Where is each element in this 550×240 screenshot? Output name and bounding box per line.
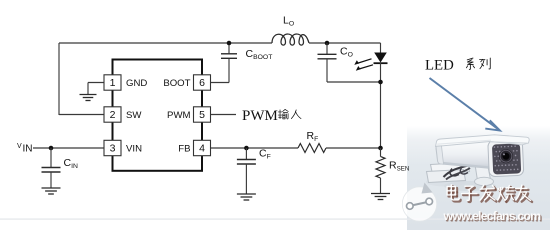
svg-text:3: 3 [110, 143, 116, 155]
svg-text:IN: IN [23, 144, 33, 155]
svg-text:BOOT: BOOT [163, 78, 190, 89]
svg-text:www.elecfans.com: www.elecfans.com [443, 209, 542, 223]
svg-text:PWM: PWM [167, 110, 190, 121]
svg-text:V: V [17, 143, 22, 150]
svg-text:FB: FB [178, 144, 190, 155]
svg-text:2: 2 [110, 109, 116, 121]
svg-text:LED: LED [425, 58, 454, 74]
svg-text:1: 1 [110, 77, 116, 89]
svg-text:6: 6 [199, 77, 205, 89]
svg-text:4: 4 [199, 143, 205, 155]
svg-text:5: 5 [199, 109, 205, 121]
svg-text:GND: GND [126, 78, 147, 89]
svg-text:SW: SW [126, 110, 142, 121]
svg-text:PWM: PWM [242, 108, 278, 124]
svg-text:VIN: VIN [126, 144, 142, 155]
